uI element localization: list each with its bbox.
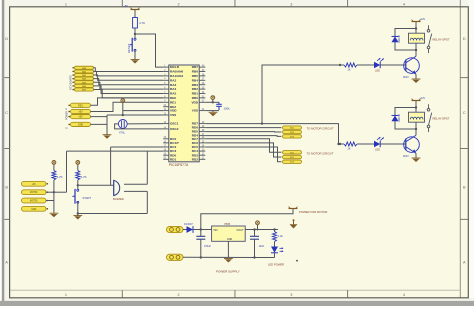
svg-text:1.2k: 1.2k xyxy=(278,234,284,238)
svg-text:RE1: RE1 xyxy=(78,104,83,107)
svg-text:POWER SUPPLY: POWER SUPPLY xyxy=(216,269,240,273)
svg-text:VDD: VDD xyxy=(191,100,198,104)
svg-text:1: 1 xyxy=(65,293,67,297)
svg-text:LED POWER: LED POWER xyxy=(268,262,284,266)
svg-text:VDD: VDD xyxy=(170,109,177,113)
svg-text:LED: LED xyxy=(375,147,380,151)
svg-text:10uF: 10uF xyxy=(259,245,265,248)
svg-text:VOUT: VOUT xyxy=(236,228,244,232)
svg-text:MOT01: MOT01 xyxy=(30,192,38,194)
svg-text:VSS: VSS xyxy=(170,113,176,117)
svg-text:XTAL: XTAL xyxy=(119,131,126,134)
svg-text:BUZZER: BUZZER xyxy=(113,197,124,201)
svg-text:100k: 100k xyxy=(224,107,231,111)
svg-text:RB0: RB0 xyxy=(192,96,198,100)
svg-text:2: 2 xyxy=(178,3,180,7)
svg-text:B: B xyxy=(463,185,466,189)
svg-text:RELAY-SPST: RELAY-SPST xyxy=(433,38,450,42)
svg-text:PIC16F877A: PIC16F877A xyxy=(169,163,189,167)
svg-text:MCLR: MCLR xyxy=(170,65,180,69)
svg-text:4.7K: 4.7K xyxy=(57,175,63,179)
svg-text:RB6: RB6 xyxy=(192,70,198,74)
svg-text:POWER: POWER xyxy=(66,111,69,120)
svg-text:1K: 1K xyxy=(347,146,350,150)
svg-text:+5V: +5V xyxy=(78,111,83,114)
svg-text:RA5: RA5 xyxy=(170,92,176,96)
svg-text:470uF: 470uF xyxy=(204,245,212,248)
svg-text:C: C xyxy=(463,111,466,115)
svg-text:VIN: VIN xyxy=(213,228,217,232)
svg-text:LED: LED xyxy=(375,68,380,72)
svg-text:RB2: RB2 xyxy=(192,87,198,91)
svg-text:4.7K: 4.7K xyxy=(139,21,145,25)
svg-text:7805: 7805 xyxy=(224,222,231,226)
svg-text:G: G xyxy=(66,127,69,129)
svg-text:RELAY-SPST: RELAY-SPST xyxy=(433,117,450,121)
svg-text:RA4: RA4 xyxy=(170,87,176,91)
svg-text:1N4148: 1N4148 xyxy=(399,113,401,122)
svg-text:1N4007: 1N4007 xyxy=(184,223,193,226)
svg-text:9013: 9013 xyxy=(403,76,409,79)
svg-text:+5V: +5V xyxy=(123,4,128,8)
svg-text:TO MOTOR CIRCUIT: TO MOTOR CIRCUIT xyxy=(307,127,334,131)
svg-text:RE1: RE1 xyxy=(170,100,176,104)
svg-text:RA3: RA3 xyxy=(170,83,176,87)
svg-text:RA0/AN0: RA0/AN0 xyxy=(170,70,184,74)
svg-text:+12V: +12V xyxy=(420,97,426,100)
svg-text:RE0: RE0 xyxy=(170,96,176,100)
svg-text:POWER FOR MOTOR: POWER FOR MOTOR xyxy=(299,210,327,214)
svg-text:3: 3 xyxy=(290,3,292,7)
svg-text:RD1: RD1 xyxy=(170,157,176,161)
svg-text:START: START xyxy=(83,196,92,200)
svg-text:GND: GND xyxy=(227,238,233,241)
svg-text:OSC2: OSC2 xyxy=(170,127,179,131)
svg-text:1N4148: 1N4148 xyxy=(399,34,401,43)
svg-text:A: A xyxy=(463,260,466,264)
svg-text:4.7K: 4.7K xyxy=(81,175,87,179)
svg-text:RB1: RB1 xyxy=(192,92,198,96)
svg-text:+5V: +5V xyxy=(32,184,37,186)
svg-text:MOT02: MOT02 xyxy=(30,201,38,203)
svg-text:D: D xyxy=(5,37,8,41)
svg-text:RB3: RB3 xyxy=(192,83,198,87)
svg-text:RB4: RB4 xyxy=(192,78,198,82)
svg-text:4: 4 xyxy=(403,293,405,297)
svg-text:9013: 9013 xyxy=(403,155,409,158)
svg-text:1K: 1K xyxy=(347,67,350,71)
svg-text:GND: GND xyxy=(78,123,84,126)
svg-text:RA2: RA2 xyxy=(170,78,176,82)
svg-text:VSS: VSS xyxy=(192,109,198,113)
svg-text:2: 2 xyxy=(178,293,180,297)
svg-text:TO MOTOR CIRCUIT: TO MOTOR CIRCUIT xyxy=(307,151,334,155)
svg-text:RB7: RB7 xyxy=(192,65,198,69)
svg-text:OSC1: OSC1 xyxy=(170,122,179,126)
svg-text:3: 3 xyxy=(290,293,292,297)
svg-text:GND: GND xyxy=(31,209,36,211)
svg-text:+12V: +12V xyxy=(420,18,426,21)
svg-text:4: 4 xyxy=(403,3,405,7)
svg-text:C: C xyxy=(5,111,8,115)
svg-text:RB5: RB5 xyxy=(192,74,198,78)
svg-text:RESET: RESET xyxy=(127,43,131,53)
svg-text:RD2: RD2 xyxy=(192,157,198,161)
svg-text:D: D xyxy=(463,37,466,41)
svg-text:1: 1 xyxy=(65,3,67,7)
svg-text:RA1/AN1: RA1/AN1 xyxy=(170,74,184,78)
svg-text:KEY BOARD: KEY BOARD xyxy=(70,75,73,90)
svg-text:+5V: +5V xyxy=(78,116,83,119)
